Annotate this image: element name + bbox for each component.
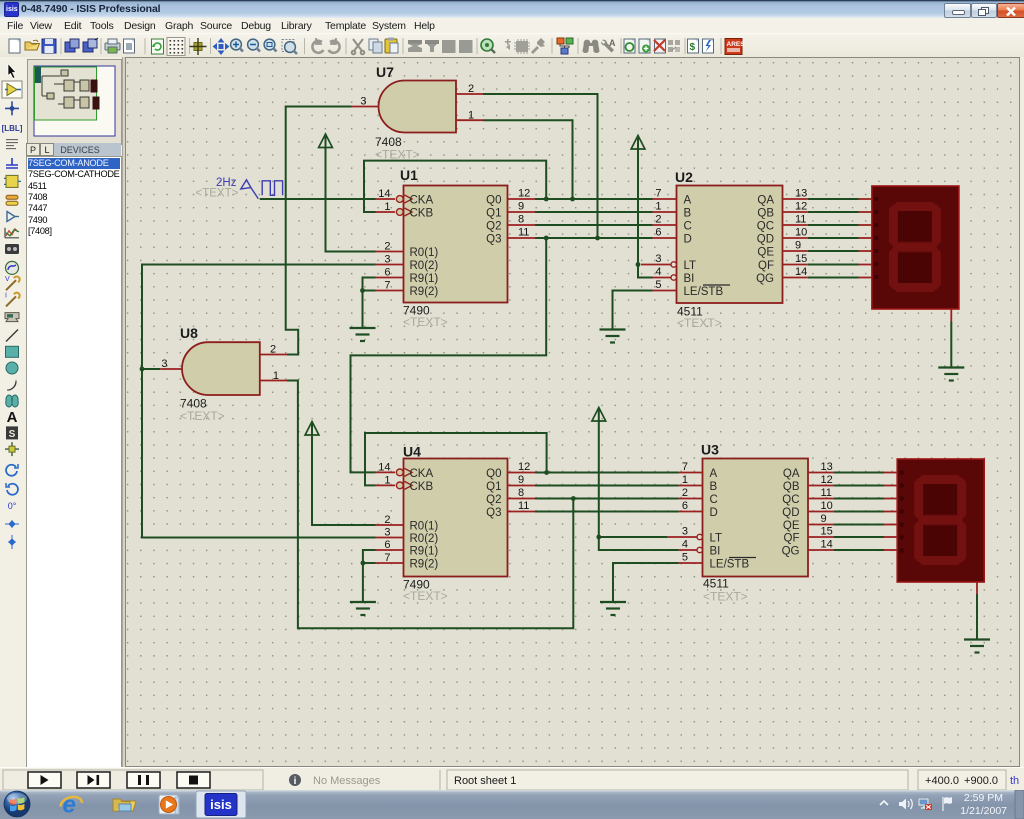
svg-text:14: 14 — [378, 188, 390, 200]
pin U3 A 7 — [679, 472, 703, 474]
svg-text:D: D — [684, 234, 692, 246]
svg-text:2: 2 — [655, 214, 661, 226]
svg-text:QF: QF — [758, 260, 774, 272]
svg-text:4: 4 — [682, 539, 688, 551]
svg-text:th: th — [1010, 775, 1019, 787]
svg-text:$: $ — [690, 42, 696, 53]
svg-text:15: 15 — [795, 253, 807, 265]
wire U3.QG to display2 — [833, 549, 884, 551]
svg-text:A: A — [7, 409, 18, 426]
AND gate U8 7408 (mirrored) — [182, 342, 260, 395]
wire U3.QC to display2 — [833, 498, 884, 500]
pin U3 QB — [808, 485, 833, 487]
svg-text:<TEXT>: <TEXT> — [196, 188, 239, 200]
pin U7.2 input — [456, 93, 483, 95]
svg-text:Q0: Q0 — [486, 195, 501, 207]
pin U4 R0(1) 2 — [376, 524, 404, 526]
pin U2 LE/STB 5 — [653, 290, 677, 292]
ground U4 R9 — [350, 602, 376, 615]
svg-text:5: 5 — [682, 552, 688, 564]
svg-text:Q2: Q2 — [486, 494, 501, 506]
pin U7.3 output — [352, 106, 379, 108]
AND gate U7 7408 (mirrored) — [379, 81, 457, 133]
junction node (142,369) — [140, 367, 145, 372]
wire power to U3 LT/BI — [599, 420, 679, 550]
svg-text:2: 2 — [384, 514, 390, 526]
7-seg display 2 (bottom) — [897, 459, 984, 582]
svg-text:QB: QB — [757, 208, 774, 220]
svg-text:Q1: Q1 — [486, 481, 501, 493]
svg-text:D: D — [710, 507, 718, 519]
svg-text:A: A — [710, 468, 718, 480]
pin U2 B 1 — [653, 211, 677, 213]
wire power to U2 LT/BI — [638, 148, 653, 278]
svg-text:B: B — [710, 481, 718, 493]
svg-text:<TEXT>: <TEXT> — [703, 590, 748, 604]
pin U2 BI (4) — [653, 275, 677, 280]
junction node (573.3,498.5) — [571, 496, 576, 501]
wire U4.R9(2) tie — [363, 562, 376, 564]
svg-text:R9(1): R9(1) — [410, 273, 439, 285]
svg-text:QC: QC — [757, 221, 774, 233]
svg-text:U8: U8 — [180, 325, 198, 341]
wire U3.QD to display2 — [833, 511, 884, 513]
pin U2 QC — [783, 224, 808, 226]
svg-text:10: 10 — [821, 500, 833, 512]
svg-text:CKB: CKB — [410, 481, 434, 493]
wire U1.R0(1) to power — [326, 149, 376, 252]
svg-text:R0(2): R0(2) — [410, 533, 439, 545]
pin display1 row y=225 — [859, 224, 872, 226]
svg-text:QA: QA — [783, 468, 800, 480]
svg-text:U1: U1 — [400, 167, 418, 183]
power arrow U3 LT/BI — [592, 408, 606, 422]
svg-text:Q0: Q0 — [486, 468, 501, 480]
pin U2 QD — [783, 237, 808, 239]
pin U3 QA — [808, 472, 833, 474]
IC U4 7490 body — [404, 459, 508, 577]
svg-text:6: 6 — [384, 539, 390, 551]
overline STB U2 — [703, 284, 730, 286]
svg-text:8: 8 — [518, 487, 524, 499]
svg-text:2: 2 — [468, 83, 474, 95]
svg-text:Q2: Q2 — [486, 221, 501, 233]
svg-text:QD: QD — [782, 507, 799, 519]
wire U1.R0(2) / U8.3 / U4.R0(2) net — [142, 265, 376, 538]
svg-text:4511: 4511 — [703, 577, 729, 591]
wire U1.R9(2) tie — [363, 290, 376, 292]
pin U7.1 input — [456, 119, 483, 121]
svg-text:Q3: Q3 — [486, 507, 501, 519]
svg-text:7: 7 — [682, 461, 688, 473]
ground display1 — [938, 368, 964, 381]
svg-text:6: 6 — [655, 227, 661, 239]
svg-text:1: 1 — [384, 474, 390, 486]
svg-text:QG: QG — [782, 546, 800, 558]
svg-text:2: 2 — [384, 241, 390, 253]
wire U2.QG to display1 — [808, 277, 859, 279]
power arrow U2 LT/BI — [631, 136, 645, 150]
junction node (597.5,238) — [595, 236, 600, 241]
clock generator 2Hz symbol — [241, 180, 283, 199]
pin U4 CKA (14) — [376, 468, 412, 476]
svg-text:L: L — [44, 145, 49, 155]
wire U7 pin3 to U8 pin2 — [286, 107, 352, 355]
svg-text:U3: U3 — [701, 442, 719, 458]
pin display2 row y=498.5 — [884, 498, 897, 500]
svg-text:15: 15 — [821, 526, 833, 538]
pin display1 row y=264.5 — [859, 264, 872, 266]
svg-text:3: 3 — [360, 96, 366, 108]
svg-text:LE/STB: LE/STB — [684, 286, 724, 298]
svg-text:11: 11 — [518, 500, 529, 512]
svg-text:14: 14 — [795, 266, 807, 278]
pin U3 LE/STB 5 — [679, 562, 703, 564]
junction node (546.2,199) — [544, 197, 549, 202]
wire U1.R9(1) to ground — [363, 278, 376, 329]
svg-text:10: 10 — [795, 227, 807, 239]
wire U7 pin2 to Q3 net — [483, 94, 598, 238]
svg-text:LT: LT — [684, 260, 697, 272]
pin display2 row y=511.5 — [884, 511, 897, 513]
wire U3.QF to display2 — [833, 536, 884, 538]
wire U3.QA to display2 — [833, 472, 884, 474]
wire U4.R9(1) to ground — [363, 550, 376, 602]
pin U2 QB — [783, 211, 808, 213]
svg-text:BI: BI — [684, 273, 695, 285]
wire U4.Q2 to U8 pin1 — [287, 381, 573, 629]
IC U3 4511 body — [703, 459, 809, 577]
pin display1 row y=238 — [859, 237, 872, 239]
svg-text:<TEXT>: <TEXT> — [403, 589, 448, 603]
ground U2 LE/STB — [600, 330, 626, 343]
pin U3 QD — [808, 511, 833, 513]
svg-text:ARES: ARES — [727, 41, 746, 48]
svg-text:13: 13 — [795, 188, 807, 200]
svg-text:R9(2): R9(2) — [410, 559, 439, 571]
svg-text:6: 6 — [682, 500, 688, 512]
svg-text:12: 12 — [518, 188, 530, 200]
svg-text:No Messages: No Messages — [313, 775, 381, 787]
svg-text:11: 11 — [795, 214, 806, 226]
svg-text:8: 8 — [518, 214, 524, 226]
overline STB U3 — [729, 557, 756, 559]
svg-text:Root sheet 1: Root sheet 1 — [454, 775, 516, 787]
svg-text:<TEXT>: <TEXT> — [677, 316, 722, 330]
pin U4 Q0 12 — [508, 472, 536, 474]
wire 2Hz clock to U1 CKA — [260, 198, 376, 200]
svg-text:4: 4 — [655, 266, 661, 278]
svg-text:<TEXT>: <TEXT> — [180, 409, 225, 423]
pin U3 B 1 — [679, 485, 703, 487]
IC U1 7490 body — [404, 186, 508, 303]
pin U4 Q2 8 — [508, 498, 536, 500]
ground U3 LE/STB — [600, 602, 626, 615]
pin display2 row y=537 — [884, 536, 897, 538]
pin U1 CKA (14) — [376, 195, 412, 203]
svg-text:e: e — [63, 792, 76, 819]
pin U1 R0(2) 3 — [376, 264, 404, 266]
pin U2 D 6 — [653, 237, 677, 239]
wire U1.Q2 to U2.C — [535, 224, 653, 226]
svg-text:1: 1 — [273, 370, 279, 382]
svg-text:LE/STB: LE/STB — [710, 559, 750, 571]
pin display1 row y=199 — [859, 198, 872, 200]
svg-text:12: 12 — [821, 474, 833, 486]
CANVAS SVG INSERTED HERE — [125, 57, 1024, 767]
pin U3 QE — [808, 524, 833, 526]
pin display2 row y=472.5 — [884, 472, 897, 474]
svg-text:0°: 0° — [8, 501, 17, 511]
wire U2.LE/STB to ground — [613, 291, 653, 330]
svg-text:LT: LT — [710, 533, 723, 545]
wire U4.Q0 to U3.A — [535, 472, 679, 474]
junction node (546.6,472.5) — [544, 470, 549, 475]
svg-text:R9(2): R9(2) — [410, 286, 439, 298]
svg-text:isis: isis — [210, 797, 232, 812]
svg-text:14: 14 — [821, 539, 833, 551]
svg-text:QC: QC — [782, 494, 799, 506]
pin display1 row y=212 — [859, 211, 872, 213]
pin U1 R0(1) 2 — [376, 251, 404, 253]
pin U4 Q3 11 — [508, 511, 536, 513]
pin display2 row y=550 — [884, 549, 897, 551]
svg-text:3: 3 — [384, 254, 390, 266]
pin U3 C 2 — [679, 498, 703, 500]
pin display2 row y=524.5 — [884, 524, 897, 526]
wire U2.QD to display1 — [808, 237, 859, 239]
pin U4 R0(2) 3 — [376, 537, 404, 539]
wire U8 pin3 to R0(2) net — [142, 368, 160, 370]
wire U4.Q3 to U3.D — [535, 511, 679, 513]
wire U3.LT branch — [599, 536, 667, 538]
svg-text:11: 11 — [518, 227, 529, 239]
ground display2 — [964, 640, 990, 653]
svg-text:Q1: Q1 — [486, 208, 501, 220]
wire U2.QB to display1 — [808, 211, 859, 213]
svg-text:QE: QE — [783, 520, 800, 532]
svg-text:1: 1 — [655, 201, 661, 213]
pin U8.3 output — [160, 368, 182, 370]
svg-text:R0(2): R0(2) — [410, 260, 439, 272]
svg-text:[LBL]: [LBL] — [2, 124, 23, 133]
wire display1 to ground — [950, 322, 952, 368]
pin U2 QA — [783, 198, 808, 200]
pin U1 R9(1) 6 — [376, 277, 404, 279]
svg-text:CKB: CKB — [410, 208, 434, 220]
svg-text:12: 12 — [795, 201, 807, 213]
svg-text:3: 3 — [161, 358, 167, 370]
pin U8.2 input — [260, 354, 287, 356]
wire U4.Q2 to U3.C — [535, 498, 679, 500]
pin U1 Q0 12 — [508, 198, 536, 200]
wire U3.QE to display2 — [833, 524, 884, 526]
wire U1.CKB to Q0 net — [364, 161, 546, 212]
pin U1 Q3 11 — [508, 237, 536, 239]
pin display1 common — [950, 309, 952, 322]
pin U4 CKB (1) — [376, 481, 412, 489]
wire U4.Q1 to U3.B — [535, 485, 679, 487]
svg-text:U2: U2 — [675, 169, 693, 185]
wire U4.CKB to Q0 net — [365, 433, 547, 485]
svg-text:CKA: CKA — [410, 468, 434, 480]
svg-text:U4: U4 — [403, 444, 421, 460]
pin U2 QF — [783, 264, 808, 266]
power arrow U1 R0(1) — [319, 134, 333, 252]
svg-text:P: P — [30, 145, 36, 155]
svg-text:A: A — [609, 38, 616, 48]
svg-text:S: S — [9, 429, 16, 440]
wire U1.Q0 to U2.A — [535, 198, 653, 200]
svg-text:11: 11 — [821, 487, 832, 499]
svg-text:+400.0: +400.0 — [925, 775, 959, 787]
pin U8.1 input — [260, 380, 287, 382]
wire U1.Q3 to U2.D — [535, 237, 653, 239]
pin U4 R9(2) 7 — [376, 562, 404, 564]
svg-text:7: 7 — [655, 188, 661, 200]
pin U3 QG — [808, 549, 833, 551]
svg-text:2: 2 — [682, 487, 688, 499]
svg-text:i: i — [294, 776, 297, 787]
svg-text:2: 2 — [270, 344, 276, 356]
svg-text:R0(1): R0(1) — [410, 521, 439, 533]
svg-text:I: I — [5, 292, 7, 299]
svg-text:R9(1): R9(1) — [410, 546, 439, 558]
svg-text:B: B — [684, 208, 692, 220]
ground U1 R9 — [350, 328, 376, 341]
pin U2 QE — [783, 250, 808, 252]
pin U1 R9(2) 7 — [376, 290, 404, 292]
pin U3 QC — [808, 498, 833, 500]
svg-text:3: 3 — [655, 253, 661, 265]
wire U3.QB to display2 — [833, 485, 884, 487]
pin U2 LT (3) — [641, 262, 676, 267]
svg-text:1: 1 — [384, 201, 390, 213]
svg-text:1: 1 — [468, 110, 474, 122]
svg-text:5: 5 — [655, 279, 661, 291]
svg-text:U7: U7 — [376, 64, 394, 80]
junction node (362.9,563) — [361, 561, 366, 566]
wire U2.QC to display1 — [808, 224, 859, 226]
svg-text:<TEXT>: <TEXT> — [403, 315, 448, 329]
svg-text:QD: QD — [757, 234, 774, 246]
svg-text:CKA: CKA — [410, 195, 434, 207]
wire U2.QF to display1 — [808, 264, 859, 266]
junction node (638,264.5) — [636, 262, 641, 267]
pin U1 Q1 9 — [508, 211, 536, 213]
junction node (546.2,238) — [544, 236, 549, 241]
pin U1 Q2 8 — [508, 224, 536, 226]
svg-text:3: 3 — [682, 526, 688, 538]
pin U3 D 6 — [679, 511, 703, 513]
svg-text:QA: QA — [757, 195, 774, 207]
pin U3 QF — [808, 536, 833, 538]
svg-text:14: 14 — [378, 461, 390, 473]
svg-text:Q3: Q3 — [486, 234, 501, 246]
svg-text:BI: BI — [710, 546, 721, 558]
svg-text:9: 9 — [821, 513, 827, 525]
pin U2 QG — [783, 277, 808, 279]
svg-text:2:59 PM: 2:59 PM — [964, 792, 1003, 804]
svg-text:9: 9 — [518, 474, 524, 486]
svg-text:7: 7 — [384, 552, 390, 564]
svg-text:QG: QG — [756, 273, 774, 285]
pin U4 R9(1) 6 — [376, 549, 404, 551]
pin display2 common — [976, 582, 978, 594]
svg-text:3: 3 — [384, 527, 390, 539]
pin display1 row y=277.5 — [859, 277, 872, 279]
pin U2 C 2 — [653, 224, 677, 226]
pin U4 Q1 9 — [508, 485, 536, 487]
pin display1 row y=251 — [859, 250, 872, 252]
svg-text:+900.0: +900.0 — [964, 775, 998, 787]
svg-text:7: 7 — [384, 280, 390, 292]
pin U3 LT (3) — [667, 534, 702, 539]
svg-text:C: C — [684, 221, 692, 233]
svg-text:1/21/2007: 1/21/2007 — [960, 805, 1007, 817]
wire U3.LE/STB to ground — [613, 563, 679, 602]
wire U2.QE to display1 — [808, 250, 859, 252]
IC U2 4511 body — [677, 186, 783, 304]
svg-text:9: 9 — [795, 240, 801, 252]
junction node (362.5,290.5) — [360, 288, 365, 293]
svg-text:6: 6 — [384, 267, 390, 279]
svg-text:<TEXT>: <TEXT> — [375, 148, 420, 162]
power arrow U4 R0(1) — [305, 422, 319, 526]
wire U1.Q1 to U2.B — [535, 211, 653, 213]
wire U2.QA to display1 — [808, 198, 859, 200]
svg-text:C: C — [710, 494, 718, 506]
pin U1 CKB (1) — [376, 208, 412, 216]
svg-text:QF: QF — [784, 533, 800, 545]
wire display2 to ground — [976, 594, 978, 640]
pin U3 BI (4) — [679, 547, 703, 552]
svg-text:R0(1): R0(1) — [410, 247, 439, 259]
svg-text:1: 1 — [682, 474, 688, 486]
svg-text:V: V — [5, 276, 10, 283]
svg-text:A: A — [684, 195, 692, 207]
pin display2 row y=485.5 — [884, 485, 897, 487]
wire U4.R0(1) to power — [312, 434, 376, 525]
svg-text:13: 13 — [821, 461, 833, 473]
junction node (598.8,537) — [596, 535, 601, 540]
wire U1.Q3 to U4.CKA — [351, 238, 547, 472]
svg-text:DEVICES: DEVICES — [60, 145, 100, 155]
junction node (572.5,199) — [570, 197, 575, 202]
svg-text:QB: QB — [783, 481, 800, 493]
wire U7 pin1 to Q0 net — [483, 120, 573, 199]
svg-text:9: 9 — [518, 201, 524, 213]
svg-text:12: 12 — [518, 461, 530, 473]
svg-text:QE: QE — [757, 247, 774, 259]
7-seg display 1 (top) — [872, 186, 959, 309]
pin U2 A 7 — [653, 198, 677, 200]
